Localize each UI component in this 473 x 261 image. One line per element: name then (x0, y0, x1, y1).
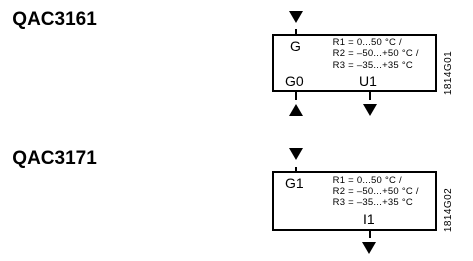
figure ID 1814G01 (444, 51, 454, 95)
pin label G1 (285, 176, 304, 190)
arrow: output signal I1 (filled down triangle) (362, 242, 376, 254)
value label: measuring ranges R1..R3 of I1 (333, 175, 419, 209)
wire: stub from arrow to U1 top edge (pin G) (295, 29, 297, 37)
pin label G (290, 39, 301, 53)
value label: measuring ranges R1..R3 of U1 (333, 37, 419, 71)
sensor block U1 (QAC3161) (272, 34, 437, 93)
arrow: signal into pin G (filled down triangle) (289, 11, 303, 23)
arrow: signal out of pin G0 (filled up triangle) (289, 104, 303, 116)
arrow: output signal U1 (filled down triangle) (363, 104, 377, 116)
arrow: signal into pin G1 (filled down triangle) (289, 148, 303, 160)
pin label G0 (285, 74, 304, 88)
designator U1 (359, 74, 377, 88)
wire: stub from U1 bottom edge (output U1) (369, 90, 371, 100)
wire: stub from I1 bottom edge (output I1) (369, 229, 371, 238)
wire: stub from U1 bottom edge (pin G0) (295, 90, 297, 100)
title QAC3171 (12, 149, 97, 168)
sensor block I1 (QAC3171) (272, 171, 437, 231)
wire: stub from arrow to I1 top edge (pin G1) (295, 167, 297, 175)
figure ID 1814G02 (444, 188, 454, 232)
title QAC3161 (12, 10, 97, 29)
designator I1 (363, 212, 375, 226)
